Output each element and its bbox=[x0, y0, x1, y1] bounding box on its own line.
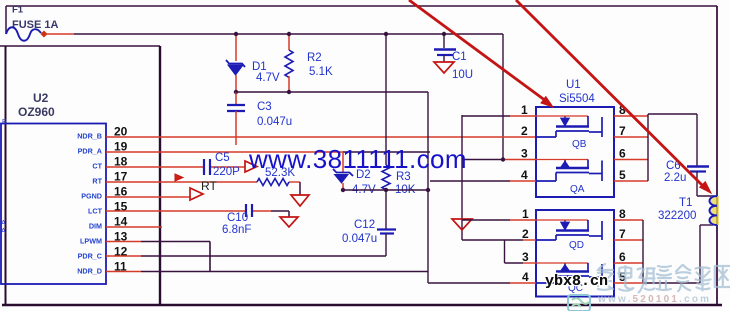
svg-text:C3: C3 bbox=[257, 101, 272, 113]
svg-text:A: A bbox=[1, 228, 6, 235]
svg-text:0.047u: 0.047u bbox=[257, 116, 292, 128]
svg-text:4.7V: 4.7V bbox=[256, 72, 280, 84]
svg-text:2: 2 bbox=[521, 124, 528, 138]
svg-text:DIM: DIM bbox=[89, 222, 102, 231]
svg-text:PDR_C: PDR_C bbox=[78, 252, 102, 261]
svg-text:8: 8 bbox=[619, 207, 626, 221]
svg-text:CT: CT bbox=[92, 162, 102, 171]
svg-text:U2: U2 bbox=[33, 91, 49, 105]
svg-text:OZ960: OZ960 bbox=[18, 105, 55, 119]
svg-text:220P: 220P bbox=[213, 166, 240, 178]
svg-text:7: 7 bbox=[619, 227, 626, 241]
svg-text:ybx8.cn: ybx8.cn bbox=[545, 273, 608, 290]
svg-text:R: R bbox=[2, 119, 7, 126]
svg-text:322200: 322200 bbox=[658, 210, 696, 222]
svg-text:PGND: PGND bbox=[81, 192, 102, 201]
svg-text:LCT: LCT bbox=[88, 207, 103, 216]
svg-text:A: A bbox=[1, 220, 6, 227]
svg-text:2: 2 bbox=[522, 227, 529, 241]
svg-text:5: 5 bbox=[619, 168, 626, 182]
svg-text:10U: 10U bbox=[452, 69, 473, 81]
svg-text:RT: RT bbox=[92, 177, 102, 186]
svg-text:LPWM: LPWM bbox=[80, 237, 102, 246]
svg-text:U1: U1 bbox=[566, 79, 581, 91]
svg-text:F1: F1 bbox=[12, 5, 24, 16]
svg-text:2.2u: 2.2u bbox=[664, 172, 686, 184]
svg-text:C5: C5 bbox=[215, 152, 230, 164]
svg-text:6: 6 bbox=[619, 147, 626, 161]
svg-text:C1: C1 bbox=[452, 51, 467, 63]
svg-text:NDR_D: NDR_D bbox=[77, 267, 102, 276]
svg-text:4: 4 bbox=[521, 168, 528, 182]
svg-text:QB: QB bbox=[572, 139, 587, 150]
svg-text:6.8nF: 6.8nF bbox=[222, 224, 251, 236]
svg-text:PDR_A: PDR_A bbox=[78, 147, 102, 156]
svg-text:QD: QD bbox=[569, 240, 584, 251]
svg-text:T1: T1 bbox=[679, 197, 692, 209]
svg-text:Si5504: Si5504 bbox=[559, 93, 595, 105]
svg-text:QA: QA bbox=[570, 184, 585, 195]
svg-text:3: 3 bbox=[521, 147, 528, 161]
svg-text:1: 1 bbox=[521, 103, 528, 117]
svg-text:6: 6 bbox=[619, 250, 626, 264]
svg-text:www.520101.com: www.520101.com bbox=[597, 294, 711, 305]
svg-text:1: 1 bbox=[522, 207, 529, 221]
svg-text:NDR_B: NDR_B bbox=[77, 132, 102, 141]
svg-text:C10: C10 bbox=[227, 212, 248, 224]
svg-text:3: 3 bbox=[522, 250, 529, 264]
svg-text:7: 7 bbox=[619, 124, 626, 138]
svg-text:C12: C12 bbox=[354, 219, 375, 231]
svg-text:0.047u: 0.047u bbox=[342, 233, 377, 245]
svg-text:5.1K: 5.1K bbox=[309, 66, 333, 78]
svg-text:4: 4 bbox=[522, 270, 529, 284]
svg-text:www.3811111.com: www.3811111.com bbox=[248, 144, 467, 174]
svg-text:RT: RT bbox=[201, 179, 217, 193]
svg-text:R2: R2 bbox=[307, 52, 322, 64]
